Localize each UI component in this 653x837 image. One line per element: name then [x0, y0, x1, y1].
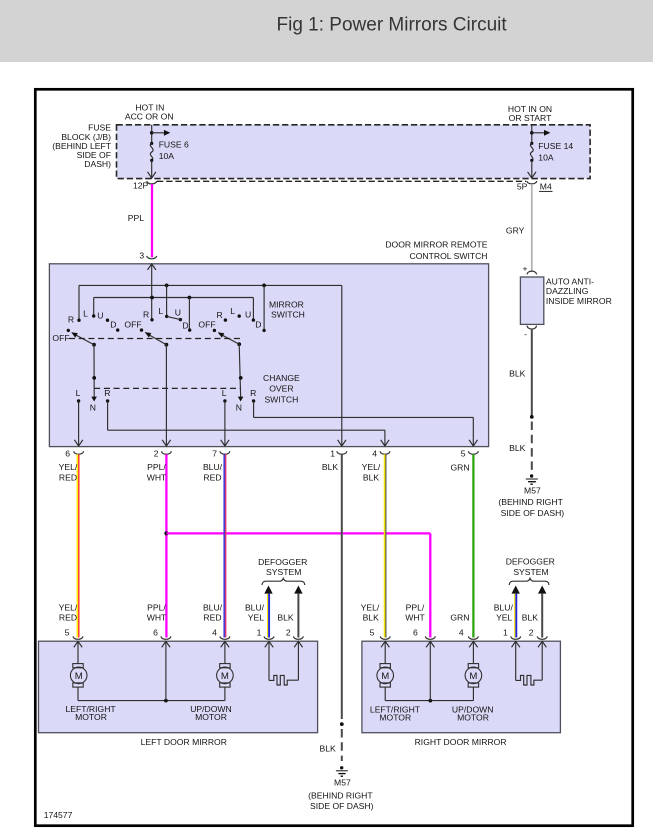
svg-text:10A: 10A	[538, 153, 554, 163]
svg-text:12P: 12P	[133, 181, 149, 191]
svg-text:SWITCH: SWITCH	[271, 310, 305, 320]
svg-text:M: M	[381, 671, 389, 682]
svg-text:SIDE OF DASH): SIDE OF DASH)	[501, 508, 565, 518]
svg-text:2: 2	[529, 627, 534, 637]
svg-text:ACC OR ON: ACC OR ON	[125, 112, 174, 122]
svg-text:WHT: WHT	[147, 473, 167, 483]
svg-text:SYSTEM: SYSTEM	[513, 567, 548, 577]
svg-text:GRY: GRY	[506, 226, 525, 236]
svg-text:BLK: BLK	[509, 443, 526, 453]
svg-text:FUSE 14: FUSE 14	[538, 141, 573, 151]
svg-text:5P: 5P	[517, 181, 528, 191]
svg-text:L: L	[222, 388, 227, 398]
svg-text:(BEHIND RIGHT: (BEHIND RIGHT	[498, 497, 563, 507]
svg-text:OFF: OFF	[198, 319, 215, 329]
svg-text:BLK: BLK	[509, 369, 526, 379]
svg-text:WHT: WHT	[147, 612, 167, 622]
svg-text:L: L	[230, 306, 235, 316]
svg-text:4: 4	[459, 627, 464, 637]
svg-text:D: D	[110, 319, 116, 329]
svg-text:SWITCH: SWITCH	[264, 394, 298, 404]
svg-text:R: R	[250, 388, 256, 398]
svg-text:CHANGE: CHANGE	[263, 373, 300, 383]
svg-text:BLU/: BLU/	[203, 602, 223, 612]
svg-text:M4: M4	[540, 181, 552, 191]
svg-text:DEFOGGER: DEFOGGER	[506, 556, 555, 566]
svg-text:L: L	[83, 309, 88, 319]
svg-text:2: 2	[154, 449, 159, 459]
svg-text:1: 1	[330, 449, 335, 459]
svg-text:M57: M57	[334, 778, 351, 788]
svg-text:Fig 1: Power Mirrors Circuit: Fig 1: Power Mirrors Circuit	[277, 15, 508, 36]
svg-text:RIGHT DOOR MIRROR: RIGHT DOOR MIRROR	[415, 737, 507, 747]
svg-text:3: 3	[139, 250, 144, 260]
svg-text:YEL/: YEL/	[362, 462, 381, 472]
svg-text:YEL: YEL	[496, 612, 512, 622]
svg-text:U: U	[97, 310, 103, 320]
svg-text:M: M	[221, 671, 229, 682]
svg-text:RED: RED	[59, 612, 77, 622]
svg-text:MOTOR: MOTOR	[457, 713, 489, 723]
svg-text:SIDE OF DASH): SIDE OF DASH)	[310, 801, 374, 811]
svg-text:BLU/: BLU/	[245, 602, 265, 612]
svg-text:4: 4	[372, 449, 377, 459]
svg-text:BLK: BLK	[363, 612, 380, 622]
svg-text:LEFT DOOR MIRROR: LEFT DOOR MIRROR	[141, 737, 227, 747]
svg-text:1: 1	[503, 627, 508, 637]
svg-text:MOTOR: MOTOR	[195, 712, 227, 722]
svg-text:BLK: BLK	[322, 462, 339, 472]
svg-text:RED: RED	[59, 473, 77, 483]
svg-text:YEL/: YEL/	[361, 602, 380, 612]
svg-text:R: R	[143, 310, 149, 320]
svg-text:-: -	[524, 329, 527, 339]
svg-text:PPL/: PPL/	[406, 602, 425, 612]
svg-text:N: N	[90, 403, 96, 413]
svg-text:D: D	[255, 319, 261, 329]
svg-text:5: 5	[65, 627, 70, 637]
svg-text:R: R	[216, 310, 222, 320]
svg-text:RED: RED	[203, 612, 221, 622]
svg-text:BLK: BLK	[277, 612, 294, 622]
svg-text:BLK: BLK	[320, 743, 337, 753]
svg-text:OFF: OFF	[52, 333, 69, 343]
svg-text:6: 6	[65, 449, 70, 459]
svg-text:2: 2	[286, 627, 291, 637]
svg-text:N: N	[236, 403, 242, 413]
svg-text:6: 6	[153, 627, 158, 637]
svg-text:MIRROR: MIRROR	[269, 300, 304, 310]
svg-text:FUSE 6: FUSE 6	[159, 140, 189, 150]
svg-text:PPL/: PPL/	[147, 462, 166, 472]
svg-text:INSIDE MIRROR: INSIDE MIRROR	[546, 296, 612, 306]
svg-text:7: 7	[212, 449, 217, 459]
svg-text:U: U	[175, 308, 181, 318]
svg-text:R: R	[104, 388, 110, 398]
svg-text:BLU/: BLU/	[494, 602, 514, 612]
svg-text:PPL/: PPL/	[147, 602, 166, 612]
svg-text:D: D	[182, 321, 188, 331]
svg-text:MOTOR: MOTOR	[379, 713, 411, 723]
svg-text:CONTROL SWITCH: CONTROL SWITCH	[410, 251, 488, 261]
svg-text:174577: 174577	[44, 810, 73, 820]
svg-text:MOTOR: MOTOR	[75, 712, 107, 722]
svg-text:4: 4	[212, 627, 217, 637]
svg-text:OVER: OVER	[269, 384, 293, 394]
svg-text:OR START: OR START	[509, 113, 552, 123]
svg-text:R: R	[68, 315, 74, 325]
svg-text:M57: M57	[524, 486, 541, 496]
svg-text:RED: RED	[203, 473, 221, 483]
svg-text:1: 1	[257, 627, 262, 637]
svg-text:YEL/: YEL/	[59, 602, 78, 612]
svg-text:GRN: GRN	[450, 612, 469, 622]
svg-text:GRN: GRN	[450, 463, 469, 473]
svg-text:L: L	[76, 388, 81, 398]
svg-text:DAZZLING: DAZZLING	[546, 286, 589, 296]
svg-text:OFF: OFF	[124, 320, 141, 330]
svg-text:5: 5	[461, 449, 466, 459]
svg-text:YEL: YEL	[248, 612, 264, 622]
svg-text:BLK: BLK	[363, 473, 380, 483]
svg-text:DOOR MIRROR REMOTE: DOOR MIRROR REMOTE	[385, 240, 487, 250]
svg-text:WHT: WHT	[405, 612, 425, 622]
svg-text:M: M	[75, 671, 83, 682]
svg-text:(BEHIND RIGHT: (BEHIND RIGHT	[308, 790, 373, 800]
svg-text:U: U	[245, 310, 251, 320]
svg-text:BLK: BLK	[522, 612, 539, 622]
svg-text:BLU/: BLU/	[203, 462, 223, 472]
svg-text:PPL: PPL	[128, 213, 144, 223]
svg-text:10A: 10A	[159, 151, 175, 161]
svg-text:L: L	[158, 306, 163, 316]
svg-text:6: 6	[413, 627, 418, 637]
svg-text:AUTO ANTI-: AUTO ANTI-	[546, 277, 594, 287]
svg-text:DEFOGGER: DEFOGGER	[258, 557, 307, 567]
svg-text:5: 5	[370, 627, 375, 637]
svg-text:SYSTEM: SYSTEM	[266, 567, 301, 577]
svg-text:DASH): DASH)	[84, 159, 111, 169]
svg-text:M: M	[469, 671, 477, 682]
svg-text:+: +	[522, 263, 527, 273]
svg-text:YEL/: YEL/	[59, 462, 78, 472]
